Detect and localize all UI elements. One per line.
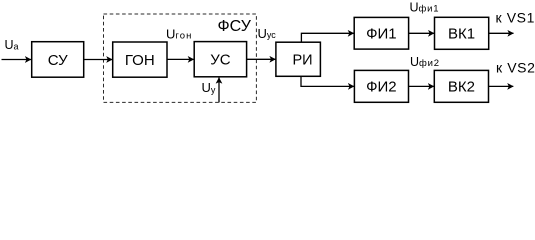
block VK1 [435, 17, 489, 49]
block VK2 [434, 70, 488, 102]
svg-text:ФИ1: ФИ1 [366, 26, 397, 43]
wire Uy control input [218, 78, 220, 103]
block FI2 [354, 70, 408, 102]
block SU [32, 42, 84, 77]
wire FI2 to VK2 [409, 85, 434, 87]
wire VK1 output to VS1 [489, 32, 514, 34]
wire input Ua [2, 59, 32, 61]
svg-text:РИ: РИ [292, 52, 312, 68]
wire SU to GON [84, 59, 113, 61]
svg-text:Uфи1: Uфи1 [410, 1, 440, 15]
svg-text:ВК2: ВК2 [448, 79, 475, 96]
svg-text:Uфи2: Uфи2 [410, 55, 440, 69]
svg-text:СУ: СУ [48, 52, 68, 69]
wire GON to US [167, 58, 194, 60]
svg-text:УС: УС [210, 52, 231, 69]
svg-text:ФИ2: ФИ2 [366, 79, 397, 96]
svg-text:Uгон: Uгон [166, 27, 192, 42]
svg-text:ВК1: ВК1 [448, 26, 475, 43]
svg-text:Uус: Uус [258, 26, 277, 41]
wire RI to FI1 [301, 33, 353, 42]
svg-text:к VS2: к VS2 [496, 60, 535, 76]
block US [194, 42, 246, 77]
dashed enclosure FSU [104, 14, 257, 102]
block GON [113, 42, 167, 77]
svg-text:Uа: Uа [5, 38, 19, 52]
svg-text:к VS1: к VS1 [496, 10, 535, 26]
wire RI to FI2 [301, 76, 354, 86]
wire VK2 output to VS2 [489, 85, 514, 87]
wire US to RI [247, 58, 276, 60]
block RI [276, 42, 321, 76]
wire FI1 to VK1 [409, 32, 435, 34]
svg-text:ГОН: ГОН [125, 52, 155, 69]
svg-text:Uу: Uу [202, 80, 216, 95]
svg-text:ФСУ: ФСУ [218, 18, 252, 35]
block FI1 [354, 17, 408, 49]
